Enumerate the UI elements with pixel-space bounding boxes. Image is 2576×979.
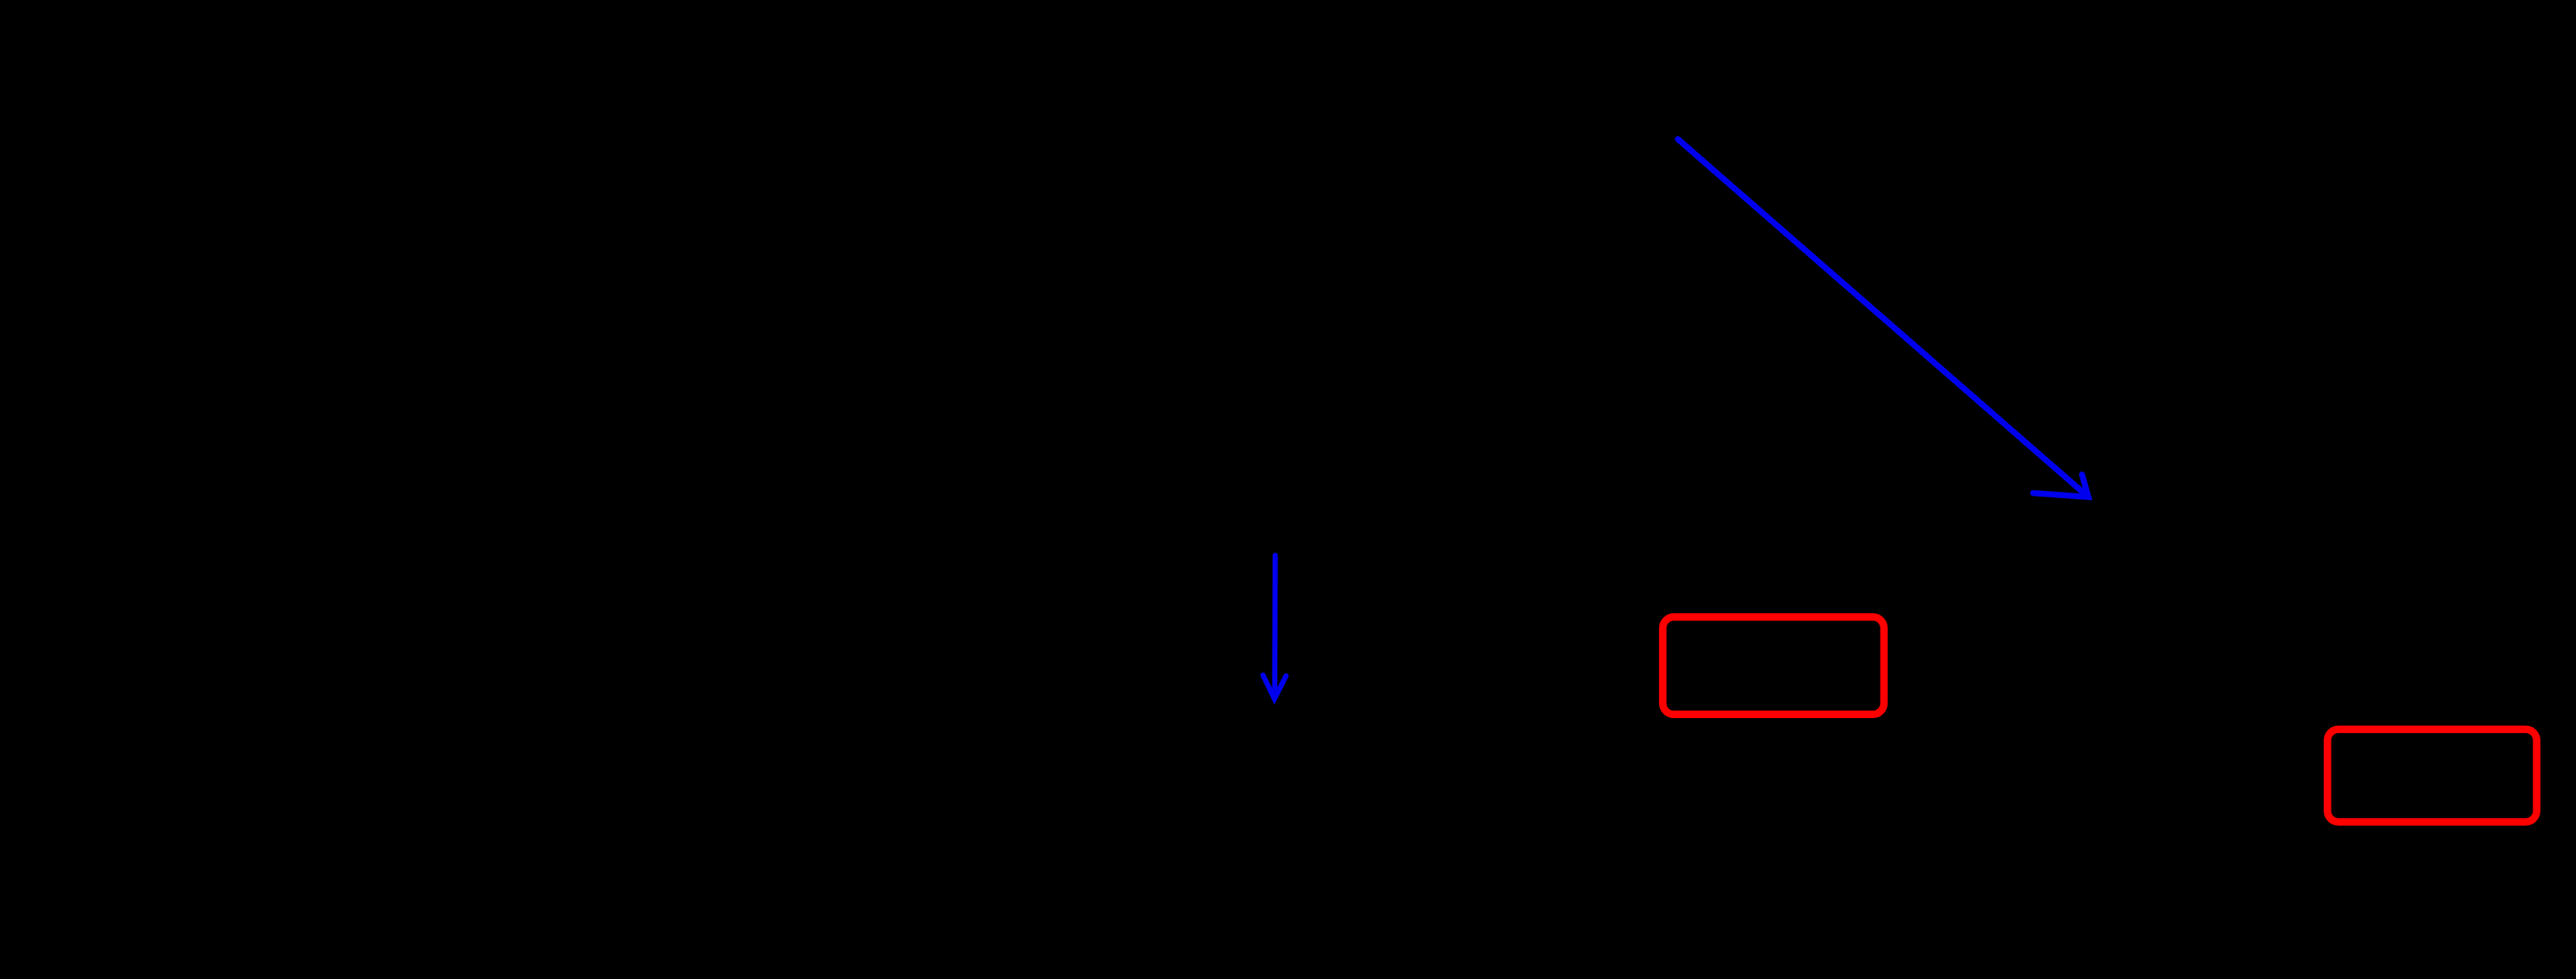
blue vertical arrow (annotation, center) <box>1263 556 1286 699</box>
red rounded box 2 (annotation, bottom right) <box>2328 729 2537 821</box>
blue diagonal arrow (annotation, top right) <box>1678 140 2089 497</box>
red rounded box 1 (annotation, center right) <box>1663 617 1884 715</box>
